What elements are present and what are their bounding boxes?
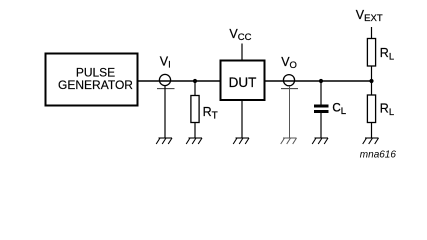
ground (VI probe): [156, 138, 172, 144]
svg-text:GENERATOR: GENERATOR: [58, 78, 133, 92]
resistor RL2: [367, 95, 375, 123]
probe VI circle: [159, 74, 170, 85]
DUT box U1: [221, 61, 265, 101]
capacitor CL plates: [314, 105, 329, 114]
ground (CL): [312, 138, 328, 144]
svg-text:RT: RT: [203, 105, 218, 121]
junction node CL: [319, 79, 323, 83]
svg-text:RL: RL: [380, 102, 394, 118]
wire RL1 to junction: [371, 66, 373, 95]
resistor RT: [191, 96, 199, 123]
svg-text:VI: VI: [160, 55, 171, 71]
wire VI probe to ground: [164, 86, 166, 138]
junction node RT: [193, 79, 197, 83]
wire DUT to ground: [241, 100, 243, 138]
svg-text:RL: RL: [380, 46, 394, 62]
wire VEXT to RL1: [371, 27, 373, 39]
wire RL2 to ground: [371, 123, 373, 139]
pulse generator box: [46, 54, 138, 106]
wire main rail right (DUT to RL junction): [265, 80, 372, 82]
svg-text:CL: CL: [332, 103, 346, 117]
junction node RL: [369, 79, 373, 83]
svg-text:VO: VO: [281, 55, 297, 71]
svg-text:VCC: VCC: [229, 27, 251, 43]
probe VO circle: [283, 75, 294, 86]
wire RT to ground: [194, 123, 196, 139]
wire CL to ground: [320, 113, 322, 138]
wire junction to RT: [194, 81, 196, 96]
svg-text:DUT: DUT: [229, 75, 257, 90]
wire junction to CL: [320, 81, 322, 105]
wire VO probe to ground: [289, 86, 291, 138]
resistor RL1: [367, 39, 375, 67]
probe VO bar: [281, 88, 298, 90]
svg-text:mna616: mna616: [360, 150, 397, 161]
ground (RT): [186, 138, 202, 144]
probe VI bar: [157, 88, 175, 90]
wire VCC to DUT: [241, 44, 243, 62]
wire main rail left (pulse generator to DUT): [138, 80, 222, 82]
ground (VO probe): [281, 138, 297, 144]
ground (DUT): [233, 138, 249, 144]
ground (RL2): [363, 138, 379, 144]
svg-text:VEXT: VEXT: [356, 8, 383, 24]
